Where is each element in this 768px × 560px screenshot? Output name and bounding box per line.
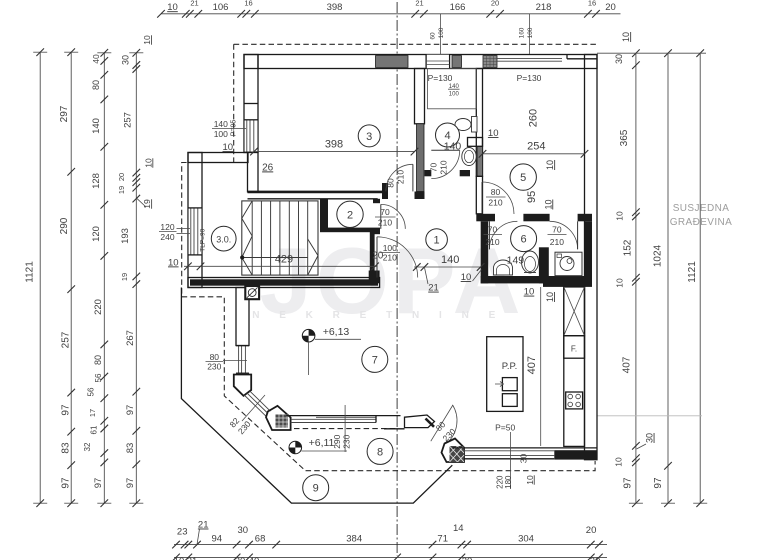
top wall window lintel fills <box>376 56 409 68</box>
svg-text:160: 160 <box>519 27 526 38</box>
svg-text:10: 10 <box>621 32 631 42</box>
svg-text:407: 407 <box>526 356 538 374</box>
kitchen top wall <box>543 281 592 287</box>
svg-text:120: 120 <box>160 222 174 232</box>
svg-text:21: 21 <box>190 0 198 7</box>
stairwell bottom wall (thick dark) <box>188 278 380 288</box>
svg-text:398: 398 <box>327 2 343 13</box>
svg-text:260: 260 <box>527 109 539 127</box>
interior dimension 429 (stairs) <box>184 265 377 267</box>
left wall upper (room 3) <box>244 55 258 153</box>
elevation marker +6,11 <box>289 437 347 454</box>
dashed boundary (roof overhang outline) <box>234 43 597 45</box>
svg-text:30: 30 <box>121 55 131 65</box>
kitchen counter <box>564 287 585 447</box>
svg-text:19: 19 <box>120 273 129 281</box>
svg-text:8: 8 <box>377 446 383 458</box>
room circle 3 <box>358 125 380 147</box>
svg-text:14: 14 <box>453 523 464 534</box>
WC middle wall <box>539 247 549 283</box>
bottom right thick wall <box>554 450 597 459</box>
svg-text:10: 10 <box>167 2 178 13</box>
room circle 7 <box>362 346 388 372</box>
svg-text:26: 26 <box>262 162 274 173</box>
svg-text:94: 94 <box>212 534 223 545</box>
svg-text:97: 97 <box>125 478 136 489</box>
svg-text:20: 20 <box>491 0 499 7</box>
svg-text:21: 21 <box>198 520 209 531</box>
bathtub room4 <box>428 69 477 109</box>
svg-text:100: 100 <box>383 243 397 253</box>
svg-text:56: 56 <box>94 373 103 382</box>
svg-text:10: 10 <box>545 292 555 302</box>
WC toilet <box>522 251 539 273</box>
svg-text:10: 10 <box>613 457 623 467</box>
svg-text:19: 19 <box>117 186 126 194</box>
svg-text:193: 193 <box>120 228 131 244</box>
svg-text:16: 16 <box>588 0 596 7</box>
svg-text:297: 297 <box>59 105 70 122</box>
bottom dimension chains <box>172 520 607 560</box>
crosshatched corner block right of bay door <box>442 439 465 463</box>
left chain labels <box>25 35 154 489</box>
svg-text:+6,13: +6,13 <box>323 326 350 338</box>
svg-text:100: 100 <box>214 129 228 139</box>
svg-text:70: 70 <box>488 225 498 235</box>
svg-text:384: 384 <box>346 534 362 545</box>
south window band (room 7/8) <box>286 415 400 417</box>
svg-text:20: 20 <box>590 556 601 560</box>
svg-text:120: 120 <box>91 226 102 242</box>
svg-text:83: 83 <box>61 442 72 454</box>
door room5 (80/210) <box>482 182 514 214</box>
door arc 80/230 at bay <box>448 405 457 443</box>
svg-text:180: 180 <box>504 475 513 489</box>
svg-text:290: 290 <box>59 217 70 234</box>
svg-text:9: 9 <box>313 483 319 495</box>
svg-text:10: 10 <box>525 475 535 485</box>
svg-text:68: 68 <box>255 534 266 545</box>
toilet room4 <box>455 119 471 131</box>
svg-text:140: 140 <box>441 254 459 266</box>
svg-text:10: 10 <box>488 128 499 139</box>
washing machine <box>555 252 582 276</box>
svg-text:210: 210 <box>378 217 392 227</box>
svg-text:56: 56 <box>87 387 96 396</box>
svg-text:40: 40 <box>249 556 260 560</box>
wall room3 right / hall left <box>415 69 425 124</box>
svg-text:70: 70 <box>552 225 562 235</box>
svg-text:240: 240 <box>160 232 174 242</box>
svg-text:140: 140 <box>444 140 462 152</box>
room circle 8 <box>367 438 393 464</box>
hall/room5 wall with door <box>476 176 482 214</box>
svg-text:30: 30 <box>518 454 528 464</box>
top wall <box>244 55 597 69</box>
terrace outline <box>181 288 452 504</box>
stairwell step wall <box>188 153 248 163</box>
svg-text:30: 30 <box>645 433 655 443</box>
wardrobe X box <box>564 287 585 336</box>
svg-text:95: 95 <box>526 191 538 203</box>
kitchen island P.P. <box>487 337 523 412</box>
drain symbol <box>245 286 259 299</box>
svg-text:21: 21 <box>187 556 198 560</box>
svg-text:210: 210 <box>550 237 564 247</box>
sink room4 <box>462 148 476 166</box>
svg-text:80: 80 <box>91 80 101 90</box>
svg-text:3.0.: 3.0. <box>216 235 231 245</box>
svg-text:210: 210 <box>485 237 499 247</box>
svg-text:70: 70 <box>429 163 439 173</box>
svg-text:+6,11: +6,11 <box>309 437 335 449</box>
right dimension chains <box>629 49 707 507</box>
svg-text:20: 20 <box>586 525 597 536</box>
svg-text:P=130: P=130 <box>428 73 453 83</box>
svg-text:230: 230 <box>207 362 221 372</box>
svg-text:100: 100 <box>438 27 445 38</box>
svg-text:10: 10 <box>543 199 553 209</box>
svg-text:254: 254 <box>527 141 545 153</box>
window 80/230 in west wall <box>236 346 249 374</box>
svg-text:257: 257 <box>61 331 72 348</box>
svg-text:N E K R E T N I N E: N E K R E T N I N E <box>252 310 504 321</box>
svg-text:P=95: P=95 <box>231 120 238 137</box>
svg-text:220: 220 <box>93 299 104 315</box>
room2 left wall <box>320 199 328 232</box>
stairwell window 120/240 <box>188 208 202 255</box>
svg-text:149: 149 <box>507 255 525 267</box>
svg-text:97: 97 <box>125 405 136 416</box>
svg-text:128: 128 <box>91 173 102 189</box>
wall left of room3 lower pier <box>248 152 259 192</box>
room circle 5 <box>510 164 536 190</box>
svg-text:F.: F. <box>571 345 577 354</box>
svg-text:210: 210 <box>488 198 502 208</box>
svg-text:80: 80 <box>491 187 501 197</box>
diagonal window glazing <box>247 393 269 414</box>
svg-text:97: 97 <box>653 477 664 489</box>
svg-text:20: 20 <box>605 2 616 13</box>
svg-text:30: 30 <box>462 556 473 560</box>
svg-text:1: 1 <box>434 235 440 247</box>
svg-text:20: 20 <box>117 173 126 181</box>
WC left wall <box>481 221 489 283</box>
door room6 right (70/210) <box>550 221 578 249</box>
svg-text:80: 80 <box>93 355 103 365</box>
room circle 4 <box>436 123 460 147</box>
right wall dark segment at WC <box>585 221 593 283</box>
bay corner block lower with crosshatch <box>266 406 291 430</box>
svg-text:152: 152 <box>623 239 634 256</box>
stove <box>566 392 583 409</box>
svg-text:10: 10 <box>142 35 152 45</box>
bay 45deg door leaf <box>405 415 435 428</box>
svg-text:P.P.: P.P. <box>502 361 518 372</box>
svg-text:1024: 1024 <box>653 244 664 267</box>
watermark <box>252 228 524 333</box>
svg-text:365: 365 <box>619 129 630 146</box>
svg-text:71: 71 <box>437 534 448 545</box>
svg-text:304: 304 <box>518 534 534 545</box>
right chain labels <box>613 32 697 489</box>
room circle 6 <box>511 226 537 252</box>
svg-text:80: 80 <box>386 178 396 188</box>
svg-text:10: 10 <box>461 272 472 283</box>
room7 west wall <box>236 288 249 346</box>
svg-text:10: 10 <box>545 160 555 170</box>
stairwell west wall <box>188 153 202 288</box>
door landing (100/210) <box>376 237 378 278</box>
svg-text:210: 210 <box>383 253 397 263</box>
svg-text:267: 267 <box>125 330 136 346</box>
right wall <box>585 55 598 460</box>
svg-text:97: 97 <box>61 477 72 489</box>
landing pier bar <box>370 228 375 276</box>
svg-text:10: 10 <box>168 257 179 268</box>
WC bottom wall <box>481 276 589 283</box>
svg-text:P=50: P=50 <box>495 423 515 433</box>
svg-text:TLP=90: TLP=90 <box>200 228 207 251</box>
room circle 9 <box>303 475 329 501</box>
svg-text:210: 210 <box>396 170 406 184</box>
door room2 (70/210) <box>380 204 382 229</box>
svg-text:21: 21 <box>428 283 439 294</box>
room4 bottom wall + door <box>425 170 432 176</box>
svg-text:60: 60 <box>430 32 437 40</box>
window in left wall <box>244 120 258 153</box>
svg-text:2: 2 <box>347 209 353 221</box>
svg-text:21: 21 <box>415 0 423 7</box>
room2 bottom wall <box>320 228 371 233</box>
svg-text:100: 100 <box>527 27 534 38</box>
svg-text:3: 3 <box>366 131 372 143</box>
svg-text:210: 210 <box>439 160 449 174</box>
svg-text:SUSJEDNA: SUSJEDNA <box>673 203 730 214</box>
svg-text:10: 10 <box>615 278 625 288</box>
svg-text:70: 70 <box>380 207 390 217</box>
room circle 2 <box>337 201 363 227</box>
svg-text:GRAĐEVINA: GRAĐEVINA <box>670 217 733 228</box>
svg-text:1121: 1121 <box>25 261 36 283</box>
interior dimension 254 (room5) <box>483 153 585 155</box>
svg-text:166: 166 <box>450 2 466 13</box>
svg-text:407: 407 <box>621 356 632 373</box>
svg-text:10: 10 <box>223 142 234 153</box>
svg-text:30: 30 <box>614 54 624 64</box>
svg-text:429: 429 <box>275 253 293 265</box>
svg-text:80: 80 <box>210 352 220 362</box>
svg-text:61: 61 <box>90 425 99 434</box>
svg-text:P=130: P=130 <box>517 73 542 83</box>
elevation marker +6,13 <box>302 326 361 375</box>
svg-text:30: 30 <box>235 556 246 560</box>
WC sink <box>494 260 513 275</box>
fridge F box <box>564 336 585 359</box>
centerline vertical <box>396 2 398 556</box>
svg-text:40: 40 <box>91 54 101 64</box>
left dimension chains <box>33 48 143 507</box>
stairs <box>242 201 318 275</box>
svg-text:7: 7 <box>372 354 378 366</box>
room5 bottom wall segments <box>476 214 495 222</box>
interior dimension 398 <box>254 151 415 153</box>
bay corner block upper <box>234 375 251 396</box>
room circle 1 <box>426 229 448 251</box>
svg-text:1121: 1121 <box>687 261 698 283</box>
svg-text:230: 230 <box>341 434 351 448</box>
svg-text:100: 100 <box>449 92 460 98</box>
svg-text:97: 97 <box>93 478 104 489</box>
svg-text:23: 23 <box>177 527 188 538</box>
svg-text:10: 10 <box>143 158 153 168</box>
svg-text:97: 97 <box>61 404 72 416</box>
svg-text:140: 140 <box>91 118 102 134</box>
svg-text:19: 19 <box>142 199 152 209</box>
door room6 left (70/210) <box>489 221 517 249</box>
svg-text:140: 140 <box>214 119 228 129</box>
entrance opening in top wall <box>426 55 450 69</box>
room4 shelf niche <box>468 138 483 147</box>
south window band lower (P=50) <box>453 447 598 449</box>
svg-text:30: 30 <box>238 525 249 536</box>
svg-text:10: 10 <box>615 211 625 221</box>
landing door jamb L-block <box>369 271 380 284</box>
wall room3 bottom <box>248 191 385 194</box>
svg-text:16: 16 <box>244 0 252 7</box>
svg-text:398: 398 <box>325 139 343 151</box>
svg-text:83: 83 <box>125 443 136 454</box>
svg-text:5: 5 <box>520 172 526 184</box>
svg-text:257: 257 <box>123 112 134 128</box>
svg-text:10: 10 <box>524 287 535 298</box>
svg-text:10: 10 <box>174 556 185 560</box>
svg-text:106: 106 <box>213 2 229 13</box>
window spec 82/230 diagonal <box>242 395 265 421</box>
door bath4 (70/210) <box>431 149 459 151</box>
svg-text:6: 6 <box>521 234 527 246</box>
svg-text:97: 97 <box>623 477 634 489</box>
extension lines right <box>597 52 706 54</box>
wall room4/5 <box>476 69 482 177</box>
interior dimension 140 (hall) <box>414 266 481 268</box>
room4 right wall lower dark <box>478 146 483 176</box>
room circle 3.0. <box>211 226 236 251</box>
door room3 (80/210) <box>412 164 414 191</box>
svg-text:17: 17 <box>88 409 97 417</box>
window 160/100 glazing in top wall <box>497 58 562 60</box>
svg-text:32: 32 <box>83 442 92 451</box>
svg-text:218: 218 <box>536 2 552 13</box>
top dimension chain <box>157 0 620 18</box>
